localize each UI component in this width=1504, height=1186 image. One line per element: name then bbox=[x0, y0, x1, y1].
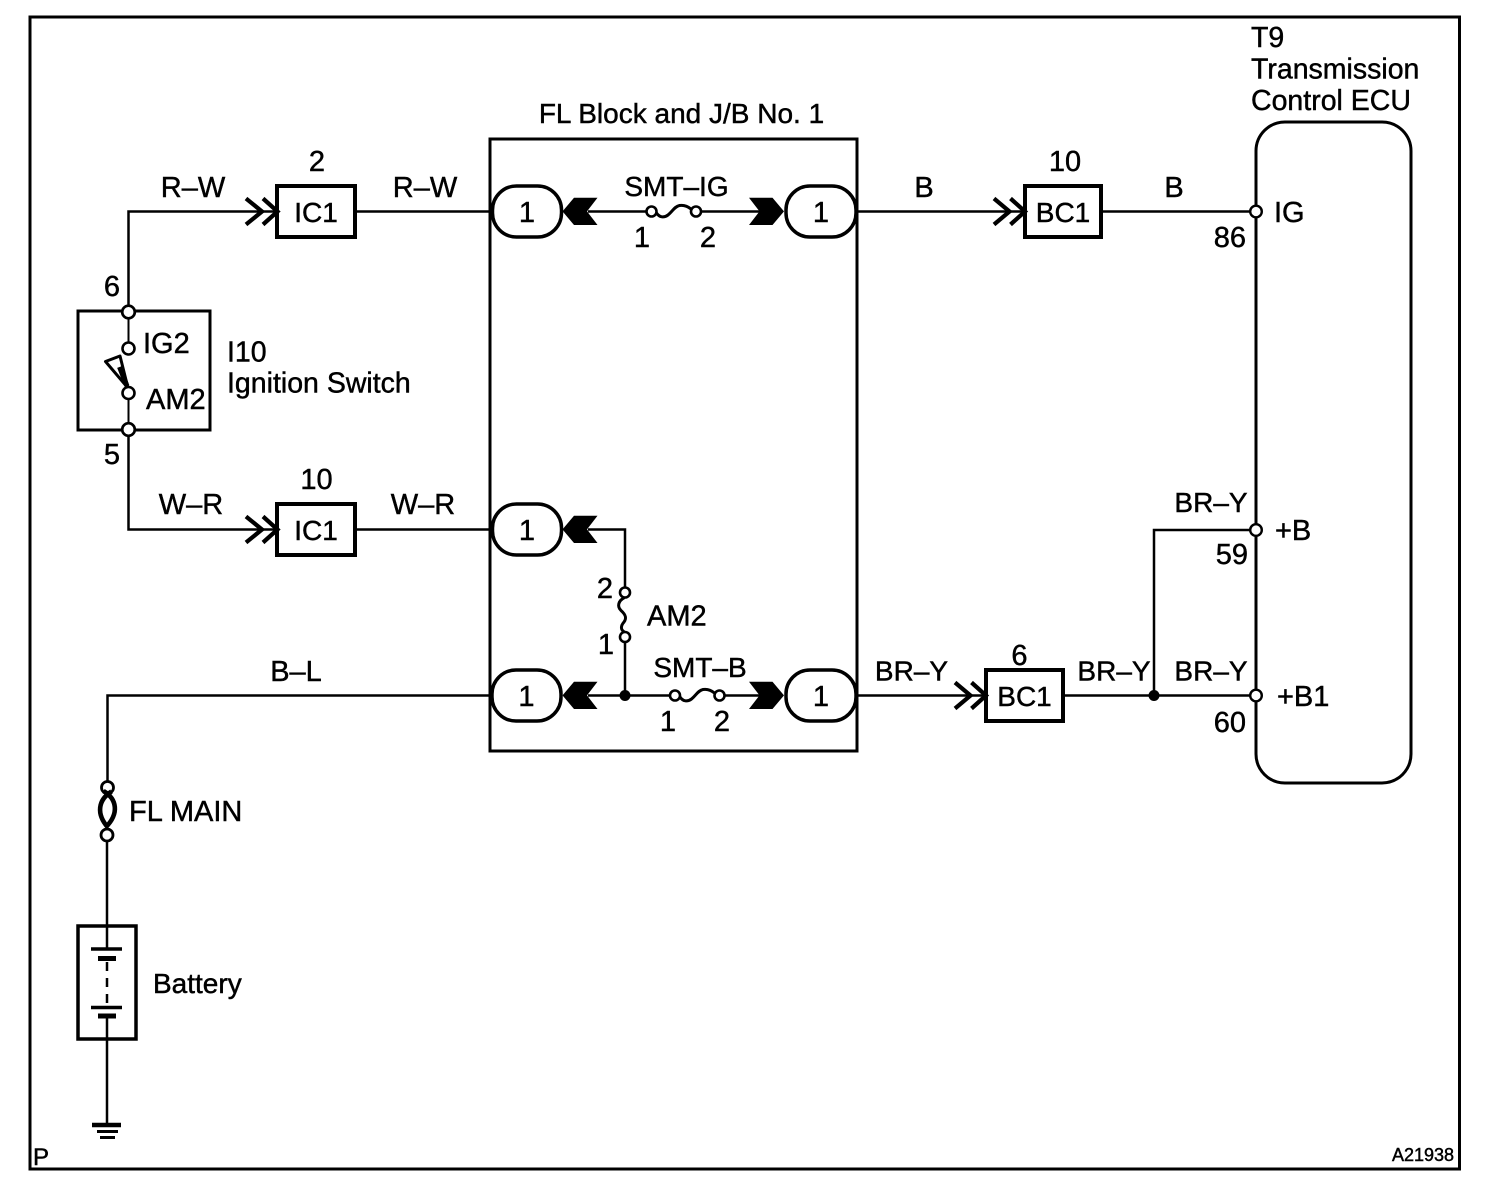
arrow into row-1 left cavity bbox=[563, 198, 598, 225]
svg-text:IG: IG bbox=[1274, 197, 1305, 229]
wire B-L from battery to J/B cavity bbox=[108, 696, 493, 782]
svg-text:Transmission: Transmission bbox=[1251, 54, 1419, 86]
wire R-W from IC1 to J/B cavity bbox=[355, 210, 492, 213]
internal wire row 1 (arrow to fuse SMT-IG) bbox=[588, 210, 647, 213]
J/B cavity 1 (row 1 left) bbox=[493, 186, 562, 237]
svg-text:BC1: BC1 bbox=[997, 681, 1051, 712]
svg-text:B: B bbox=[1164, 172, 1183, 204]
internal wire row 2 (arrow down to fuse AM2) bbox=[588, 530, 625, 589]
fuse SMT-B terminal 1 bbox=[670, 691, 680, 701]
connector IC1 pin 2 bbox=[277, 146, 355, 237]
svg-text:BC1: BC1 bbox=[1036, 197, 1090, 228]
svg-text:1: 1 bbox=[519, 515, 535, 547]
battery positive plate (top) bbox=[91, 947, 122, 951]
svg-text:T9: T9 bbox=[1251, 22, 1284, 54]
ignition switch pin 6 terminal bbox=[122, 306, 135, 319]
svg-text:Battery: Battery bbox=[153, 968, 242, 999]
ignition switch body bbox=[78, 311, 210, 430]
chevron connector marks on wire W-R bbox=[246, 517, 278, 543]
svg-text:Ignition Switch: Ignition Switch bbox=[227, 368, 411, 400]
svg-text:1: 1 bbox=[634, 222, 650, 254]
svg-text:6: 6 bbox=[104, 271, 120, 303]
fuse AM2 terminal 1 bbox=[620, 632, 630, 642]
FL MAIN upper terminal bbox=[102, 782, 114, 794]
pin terminal 86 bbox=[1250, 206, 1262, 218]
pin terminal 59 bbox=[1250, 524, 1262, 536]
battery bbox=[78, 926, 242, 1039]
J/B cavity 1 (row 1 right) bbox=[786, 186, 856, 237]
svg-text:1: 1 bbox=[598, 629, 614, 661]
fuse AM2 element bbox=[619, 598, 626, 633]
svg-text:W–R: W–R bbox=[159, 489, 223, 521]
wire BR-Y branch up to ECU pin +B bbox=[1154, 530, 1250, 696]
contact AM2 bbox=[123, 387, 135, 399]
contact IG2 bbox=[123, 343, 135, 355]
arrow into row-3 left cavity bbox=[563, 682, 598, 709]
svg-text:R–W: R–W bbox=[393, 172, 458, 204]
svg-text:10: 10 bbox=[300, 464, 332, 496]
arrow into row-3 right cavity bbox=[749, 682, 784, 709]
svg-text:10: 10 bbox=[1049, 146, 1081, 178]
svg-text:W–R: W–R bbox=[391, 489, 455, 521]
svg-text:FL Block and J/B No. 1: FL Block and J/B No. 1 bbox=[539, 98, 824, 129]
ignition switch I10 bbox=[78, 271, 411, 471]
svg-text:2: 2 bbox=[714, 706, 730, 738]
svg-text:1: 1 bbox=[518, 681, 534, 713]
wire W-R from IC1 to J/B cavity bbox=[355, 528, 492, 531]
svg-text:+B1: +B1 bbox=[1277, 681, 1329, 713]
node junction of AM2 branch on B-L line bbox=[620, 690, 631, 701]
svg-text:P: P bbox=[33, 1144, 49, 1171]
svg-text:1: 1 bbox=[519, 197, 535, 229]
wire W-R from ignition switch pin 5 down and right to IC1 bbox=[129, 437, 278, 530]
svg-text:2: 2 bbox=[597, 573, 613, 605]
svg-text:2: 2 bbox=[309, 146, 325, 178]
wire B from BC1 to ECU pin IG bbox=[1101, 210, 1250, 213]
connector IC1 pin 10 bbox=[277, 464, 355, 555]
fuse SMT-IG terminal 1 bbox=[647, 207, 657, 217]
J/B cavity 1 (row 3 right) bbox=[786, 670, 856, 721]
wire R-W from ignition switch pin 6 up and right to connector IC1 bbox=[129, 212, 278, 306]
fuse SMT-B terminal 2 bbox=[715, 691, 725, 701]
fusible link FL MAIN bbox=[100, 782, 242, 842]
svg-text:IC1: IC1 bbox=[294, 515, 338, 546]
ECU body bbox=[1256, 122, 1411, 783]
connector BC1 box (row 3) bbox=[986, 670, 1063, 721]
fuse SMT-B element bbox=[680, 689, 715, 701]
switch lever bbox=[106, 356, 129, 388]
wire BR-Y from J/B to BC1 bbox=[857, 694, 986, 697]
svg-text:86: 86 bbox=[1214, 222, 1246, 254]
svg-text:60: 60 bbox=[1214, 707, 1246, 739]
wire from FL MAIN to battery bbox=[106, 841, 109, 949]
wire B from J/B to BC1 bbox=[858, 210, 1025, 213]
ECU pin 59 +B bbox=[1216, 515, 1312, 571]
internal wire row 3 (node to fuse SMT-B) bbox=[588, 694, 671, 697]
svg-text:IG2: IG2 bbox=[143, 328, 190, 360]
wire BR-Y from BC1 to ECU pin +B1 bbox=[1063, 694, 1250, 697]
svg-text:FL MAIN: FL MAIN bbox=[129, 796, 242, 828]
J/B cavity 1 (row 3 left) bbox=[492, 670, 561, 721]
svg-text:B–L: B–L bbox=[270, 656, 322, 688]
svg-text:6: 6 bbox=[1011, 640, 1027, 672]
battery negative plate (bottom) bbox=[91, 1006, 122, 1010]
fuse SMT-B bbox=[653, 652, 746, 738]
ground bbox=[92, 1125, 121, 1138]
connector IC1 box (row 1) bbox=[277, 186, 355, 237]
internal wire row 3 (fuse SMT-B to right cavity) bbox=[724, 694, 760, 697]
battery cell dashed link bbox=[106, 962, 109, 1006]
svg-text:I10: I10 bbox=[227, 337, 267, 369]
fuse SMT-IG terminal 2 bbox=[691, 207, 701, 217]
svg-text:AM2: AM2 bbox=[647, 601, 707, 633]
junction block: FL Block and J/B No. 1 bbox=[490, 98, 857, 751]
internal wire row 1 (fuse SMT-IG to right cavity) bbox=[700, 210, 760, 213]
arrow into row-1 right cavity bbox=[749, 198, 784, 225]
ECU T9 Transmission Control ECU bbox=[1251, 22, 1419, 783]
ignition switch pin 5 terminal bbox=[122, 423, 135, 436]
FL MAIN twisted element bbox=[100, 792, 111, 828]
internal wire pin 6 to IG2 contact bbox=[128, 319, 130, 343]
fuse AM2 terminal 2 bbox=[620, 588, 630, 598]
pin terminal 60 bbox=[1250, 690, 1262, 702]
svg-text:BR–Y: BR–Y bbox=[1174, 656, 1247, 687]
svg-text:B: B bbox=[914, 172, 933, 204]
svg-text:AM2: AM2 bbox=[146, 384, 206, 416]
svg-text:BR–Y: BR–Y bbox=[875, 656, 948, 687]
svg-text:SMT–IG: SMT–IG bbox=[624, 171, 728, 202]
svg-text:+B: +B bbox=[1275, 515, 1311, 547]
internal wire AM2 contact to pin 5 bbox=[128, 399, 130, 423]
J/B cavity 1 (row 2 left) bbox=[493, 504, 562, 555]
wire from fuse AM2 to node on B-L line bbox=[624, 643, 627, 696]
svg-text:1: 1 bbox=[813, 681, 829, 713]
arrow into row-2 left cavity bbox=[563, 516, 598, 543]
svg-text:A21938: A21938 bbox=[1392, 1145, 1454, 1165]
fuse SMT-IG element bbox=[657, 205, 692, 217]
ECU pin 60 +B1 bbox=[1214, 681, 1330, 739]
svg-text:Control ECU: Control ECU bbox=[1251, 85, 1411, 117]
connector BC1 pin 10 bbox=[1025, 146, 1101, 237]
svg-text:BR–Y: BR–Y bbox=[1174, 487, 1247, 518]
svg-text:SMT–B: SMT–B bbox=[653, 652, 746, 683]
connector BC1 box (row 1) bbox=[1025, 186, 1101, 237]
svg-text:2: 2 bbox=[700, 222, 716, 254]
chevron connector marks on wire B bbox=[994, 199, 1025, 225]
wire from battery to ground bbox=[106, 1016, 109, 1124]
ECU pin 86 IG bbox=[1214, 197, 1305, 254]
svg-text:5: 5 bbox=[104, 439, 120, 471]
node junction on BR-Y line feeding +B bbox=[1149, 690, 1160, 701]
svg-text:BR–Y: BR–Y bbox=[1077, 656, 1150, 687]
FL Block body bbox=[490, 139, 857, 751]
connector BC1 pin 6 bbox=[986, 640, 1063, 721]
svg-text:1: 1 bbox=[660, 706, 676, 738]
connector IC1 box (row 2) bbox=[277, 504, 355, 555]
battery body bbox=[78, 926, 136, 1039]
fuse AM2 (vertical) bbox=[597, 573, 707, 661]
svg-text:IC1: IC1 bbox=[294, 197, 338, 228]
fuse SMT-IG bbox=[624, 171, 728, 254]
chevron connector marks on wire BR-Y bbox=[955, 683, 986, 709]
FL MAIN lower terminal bbox=[101, 829, 113, 841]
chevron connector marks on wire R-W bbox=[246, 199, 278, 225]
svg-text:59: 59 bbox=[1216, 539, 1248, 571]
svg-text:1: 1 bbox=[813, 197, 829, 229]
svg-text:R–W: R–W bbox=[161, 172, 226, 204]
